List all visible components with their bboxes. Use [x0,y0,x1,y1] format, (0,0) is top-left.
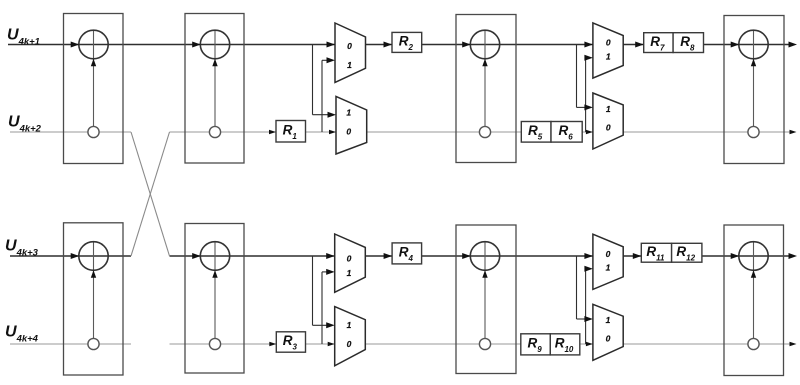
svg-text:0: 0 [606,122,611,132]
svg-text:0: 0 [347,41,352,51]
svg-text:0: 0 [606,334,611,344]
svg-text:0: 0 [347,254,352,264]
svg-text:1: 1 [347,268,352,278]
svg-text:1: 1 [606,315,611,325]
svg-text:1: 1 [606,51,611,61]
svg-text:1: 1 [347,60,352,70]
svg-text:0: 0 [606,249,611,259]
svg-text:0: 0 [347,339,352,349]
svg-text:1: 1 [606,263,611,273]
svg-text:1: 1 [346,108,351,118]
svg-text:1: 1 [606,104,611,114]
svg-text:0: 0 [346,126,351,136]
svg-text:1: 1 [347,320,352,330]
svg-text:0: 0 [606,38,611,48]
